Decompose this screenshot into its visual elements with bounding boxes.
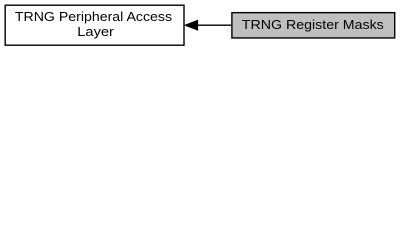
svg-text:TRNG Peripheral Access: TRNG Peripheral Access <box>15 9 173 24</box>
svg-text:TRNG Register Masks: TRNG Register Masks <box>242 17 385 32</box>
svg-text:Layer: Layer <box>77 24 114 39</box>
